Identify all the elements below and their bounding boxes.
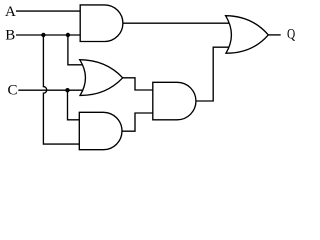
- and-gate AND2 (inputs B, C): [79, 112, 122, 149]
- wire A to AND1 input: [16, 10, 80, 12]
- junction dot on C at x=67.5: [65, 88, 69, 92]
- svg-text:B: B: [5, 28, 15, 44]
- svg-text:C: C: [8, 83, 18, 99]
- wire OR1 output to AND3 upper input: [123, 78, 153, 90]
- wire from B junction 1 down to AND2 lower input (with hop over C wire): [43, 35, 79, 144]
- wire AND3 output to OR2 lower input: [196, 47, 230, 101]
- and-gate AND3 (middle-right): [153, 82, 196, 120]
- or-gate OR2 (output Q): [226, 16, 269, 54]
- wire AND1 output to OR2 upper input: [123, 22, 232, 24]
- wire from B junction 2 down to OR1 upper input: [68, 35, 84, 65]
- junction dot on B at x=67.9: [66, 33, 70, 37]
- svg-text:A: A: [5, 4, 16, 20]
- junction dot on B at x=43.4: [41, 33, 45, 37]
- or-gate OR1 (inputs B, C): [80, 60, 123, 96]
- wire OR2 output to Q: [268, 34, 280, 36]
- and-gate AND1 (inputs A, B): [80, 5, 123, 42]
- wire B to AND1 input: [16, 34, 80, 36]
- svg-text:Q: Q: [287, 26, 295, 42]
- wire from C junction down to AND2 upper input: [68, 90, 80, 120]
- wire C to OR1 lower input: [18, 89, 84, 91]
- wire AND2 output to AND3 lower input: [122, 113, 153, 131]
